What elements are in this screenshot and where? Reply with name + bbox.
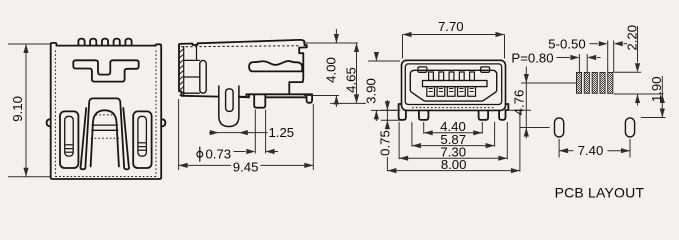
svg-text:4.00: 4.00 [323, 57, 338, 83]
svg-text:1.25: 1.25 [268, 125, 294, 140]
svg-text:9.45: 9.45 [233, 160, 259, 175]
svg-text:4.65: 4.65 [344, 67, 359, 93]
svg-text:P=0.80: P=0.80 [511, 50, 553, 65]
svg-text:3.90: 3.90 [364, 78, 379, 104]
svg-text:0.75: 0.75 [378, 130, 393, 156]
svg-text:1.90: 1.90 [649, 76, 664, 102]
svg-text:0.73: 0.73 [205, 146, 231, 161]
svg-text:4.76: 4.76 [512, 90, 527, 116]
svg-text:PCB LAYOUT: PCB LAYOUT [555, 184, 645, 200]
svg-text:5-0.50: 5-0.50 [548, 36, 585, 51]
svg-text:7.70: 7.70 [438, 19, 464, 34]
svg-text:2.20: 2.20 [625, 25, 640, 51]
svg-text:7.40: 7.40 [578, 143, 604, 158]
svg-text:9.10: 9.10 [10, 96, 25, 122]
svg-text:8.00: 8.00 [441, 157, 467, 172]
